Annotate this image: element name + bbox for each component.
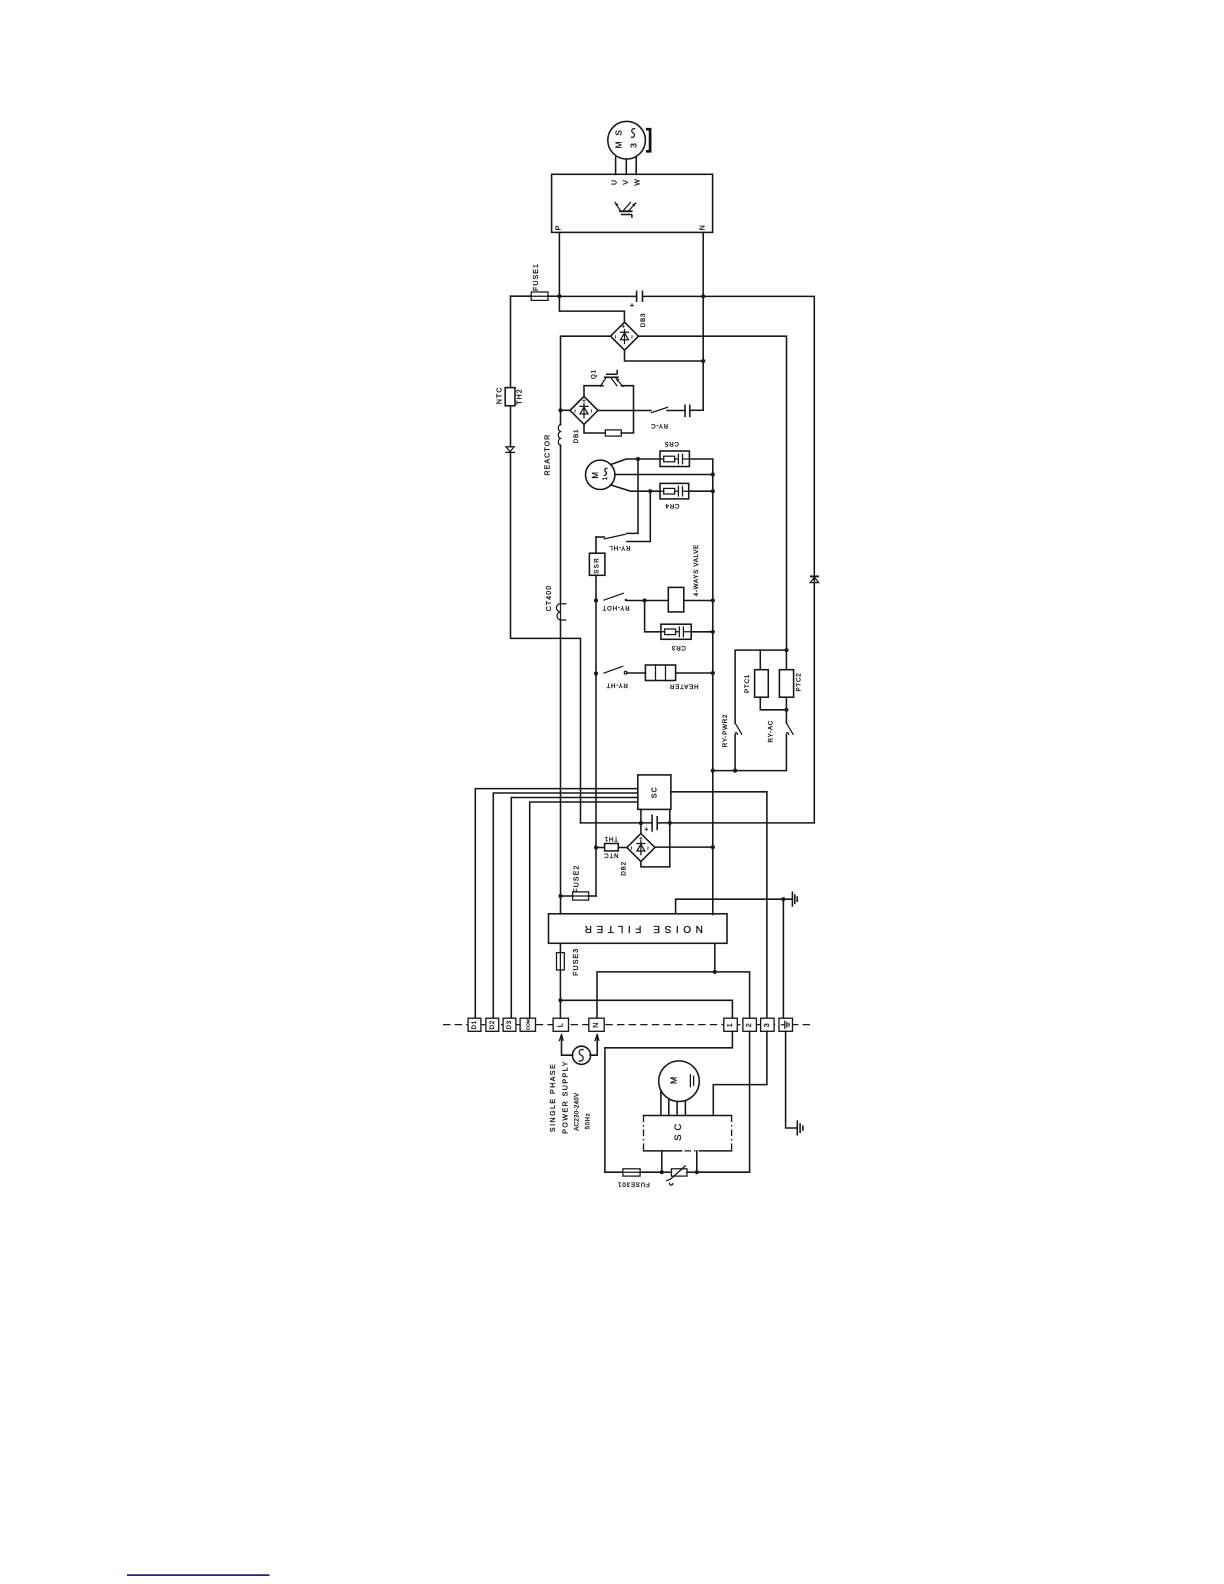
transistor Q1 glyph bbox=[604, 376, 619, 378]
svg-text:+: + bbox=[582, 399, 586, 405]
wire M1 middle lead bbox=[615, 474, 713, 476]
svg-text:C: C bbox=[673, 1124, 684, 1131]
svg-text:D2: D2 bbox=[489, 1020, 496, 1030]
switch RY-HT bbox=[604, 666, 623, 673]
svg-text:PTC1: PTC1 bbox=[744, 674, 751, 693]
node RY-HOT tap bbox=[594, 598, 598, 602]
svg-text:L: L bbox=[557, 1022, 564, 1027]
node bus 474 bbox=[711, 472, 715, 476]
wire source to L bbox=[562, 1037, 573, 1056]
boundary dashed line bbox=[443, 1024, 810, 1026]
inverter IGBT glyph bbox=[619, 210, 633, 212]
svg-text:1: 1 bbox=[727, 1022, 734, 1027]
noise filter box bbox=[549, 914, 728, 944]
wire CR3 right to bus bbox=[691, 631, 713, 633]
wire L to terminal1 bbox=[560, 1000, 732, 1018]
svg-text:M: M bbox=[614, 141, 624, 148]
node M1 bottom bbox=[648, 489, 652, 493]
switch RY-PWR2 bbox=[735, 723, 742, 734]
node NF ground branch bbox=[781, 897, 785, 901]
motor M compressor bbox=[659, 1061, 700, 1102]
svg-text:RY-C: RY-C bbox=[650, 422, 668, 429]
svg-text:TH1: TH1 bbox=[604, 835, 618, 842]
svg-text:V: V bbox=[623, 179, 630, 185]
svg-text:Q1: Q1 bbox=[590, 369, 597, 379]
fuse FUSE1 bbox=[511, 295, 532, 297]
wire SC D1 bbox=[475, 789, 638, 1019]
node 714/972 bbox=[713, 970, 717, 974]
svg-text:M: M bbox=[591, 472, 600, 479]
thermistor NTC TH1 bbox=[596, 847, 605, 849]
node bus 600 bbox=[711, 598, 715, 602]
svg-text:CR5: CR5 bbox=[664, 440, 679, 447]
wire reactor down main bus bbox=[560, 445, 562, 914]
heater bbox=[645, 665, 675, 681]
svg-text:D1: D1 bbox=[471, 1020, 478, 1030]
wire NF ground stub bbox=[676, 899, 792, 914]
wire SC D3 bbox=[511, 798, 638, 1019]
svg-text:HEATER: HEATER bbox=[669, 683, 698, 690]
reactor coil bbox=[558, 425, 560, 446]
node RY-HT tap bbox=[594, 671, 598, 675]
svg-text:S: S bbox=[614, 130, 624, 136]
svg-text:COM: COM bbox=[526, 1019, 531, 1030]
node RY-PWR2 bottom bbox=[733, 769, 737, 773]
node bus 847 bbox=[711, 845, 715, 849]
wire SSR down bbox=[595, 575, 597, 896]
svg-text:R: R bbox=[593, 558, 600, 563]
svg-text:FUSE3: FUSE3 bbox=[573, 948, 580, 976]
svg-text:AC230-240V: AC230-240V bbox=[575, 1092, 581, 1130]
svg-text:RY-HOT: RY-HOT bbox=[602, 604, 630, 611]
switch RY-AC bbox=[786, 723, 793, 734]
thermistor NTC TH2 bbox=[505, 388, 515, 406]
rectifier DB3 bbox=[611, 322, 639, 350]
svg-text:N: N bbox=[700, 224, 707, 230]
wire SC right leg bbox=[641, 809, 670, 867]
terminal D1 bbox=[468, 1018, 481, 1031]
node PTC top bbox=[784, 648, 788, 652]
node bus 491 bbox=[711, 489, 715, 493]
node fuse001 right bbox=[660, 1170, 664, 1174]
diode D bbox=[506, 447, 515, 453]
resistor PTC2 bbox=[785, 650, 787, 670]
wire terminal1 loop bbox=[605, 1031, 733, 1172]
capacitor DB2 bbox=[652, 815, 657, 831]
svg-text:C: C bbox=[652, 787, 659, 792]
wire cap to right bus bbox=[643, 296, 815, 823]
svg-text:2: 2 bbox=[746, 1022, 753, 1027]
relay SSR bbox=[595, 537, 597, 553]
wire SC D2 bbox=[493, 793, 638, 1018]
wire SC right to terminal3 bbox=[671, 792, 767, 1018]
wire CR4 right to bus bbox=[689, 490, 713, 492]
coil 4-ways valve bbox=[668, 587, 684, 612]
svg-text:S: S bbox=[593, 564, 600, 568]
svg-text:~: ~ bbox=[589, 409, 595, 413]
snubber CR3 bbox=[645, 601, 661, 632]
svg-text:~: ~ bbox=[613, 335, 619, 339]
node DB1 tap bbox=[558, 408, 562, 412]
svg-text:N: N bbox=[593, 1022, 600, 1028]
terminal L bbox=[553, 1018, 568, 1031]
wire ground branch down to terminal bbox=[782, 899, 784, 1018]
wire NF right leg bbox=[714, 943, 716, 972]
wire DB3 right to right bus bbox=[639, 336, 787, 650]
fuse FUSE2 bbox=[558, 894, 562, 898]
node N bus 296 bbox=[701, 294, 705, 298]
node bus 673 bbox=[711, 671, 715, 675]
wire jog to cap bbox=[581, 822, 653, 824]
svg-text:S: S bbox=[673, 1134, 684, 1140]
terminal 1 bbox=[724, 1018, 738, 1031]
wire NTC to diode bbox=[510, 406, 512, 447]
wire M1 top lead bbox=[611, 459, 660, 465]
motor leads to SC bbox=[661, 1091, 686, 1116]
svg-text:RY-PWR2: RY-PWR2 bbox=[722, 714, 729, 747]
wire SC legs down bbox=[662, 1151, 697, 1172]
svg-text:POWER SUPPLY: POWER SUPPLY bbox=[563, 1060, 570, 1134]
motor leads U V W bbox=[616, 157, 637, 174]
node PTC1 bottom bbox=[784, 708, 788, 712]
svg-text:+: + bbox=[621, 324, 625, 330]
svg-text:NOISE FILTER: NOISE FILTER bbox=[580, 923, 703, 934]
svg-text:CR4: CR4 bbox=[665, 502, 680, 509]
node varistor right bbox=[695, 1170, 699, 1174]
ground bottom bbox=[797, 1121, 803, 1135]
thermal protector bracket bbox=[646, 129, 650, 151]
svg-text:FUSE1: FUSE1 bbox=[533, 263, 540, 291]
ground NF bbox=[792, 892, 797, 906]
wire CR5 right to bus bbox=[689, 459, 712, 915]
svg-text:PTC2: PTC2 bbox=[796, 672, 803, 691]
inverter box bbox=[552, 174, 713, 232]
diode right bus bbox=[810, 575, 819, 577]
source AC circle bbox=[572, 1046, 590, 1064]
svg-text:U: U bbox=[612, 179, 619, 185]
node bus 770 bbox=[711, 769, 715, 773]
svg-text:TH2: TH2 bbox=[517, 388, 524, 405]
svg-text:DB3: DB3 bbox=[640, 313, 647, 327]
fuse FUSE3 bbox=[559, 943, 561, 952]
wire source to N bbox=[590, 1037, 597, 1056]
node M1 top bbox=[636, 457, 640, 461]
svg-text:S: S bbox=[593, 570, 600, 574]
node valve-CR3 tap bbox=[643, 598, 647, 602]
switch RY-HL bbox=[627, 459, 638, 533]
wire M1 bottom lead bbox=[611, 485, 660, 491]
wire DB1 left stub bbox=[561, 409, 571, 411]
node cap left bbox=[639, 821, 643, 825]
svg-text:FUSE2: FUSE2 bbox=[573, 865, 580, 893]
fuse FUSE001 bbox=[605, 1171, 623, 1173]
wire N riser bbox=[702, 232, 704, 410]
svg-text:NTC: NTC bbox=[497, 386, 504, 404]
switch RY-HOT bbox=[604, 593, 623, 600]
node L branch bbox=[558, 998, 562, 1002]
resistor PTC1 bbox=[759, 650, 761, 670]
svg-text:REACTOR: REACTOR bbox=[544, 434, 551, 476]
rectifier DB1 bbox=[570, 396, 598, 424]
terminal D3 bbox=[503, 1018, 516, 1031]
controller SC indoor bbox=[638, 775, 671, 810]
svg-text:RY-AC: RY-AC bbox=[768, 720, 775, 743]
wire N riser rail bbox=[597, 972, 750, 1018]
terminal N bbox=[589, 1018, 604, 1031]
wire DB3 left to reactor line bbox=[561, 336, 611, 425]
svg-text:50Hz: 50Hz bbox=[586, 1113, 592, 1130]
wire SC left leg bbox=[640, 809, 642, 833]
capacitor DC bus bbox=[637, 291, 643, 301]
terminal COM bbox=[520, 1018, 535, 1031]
controller SC outdoor bbox=[644, 1115, 732, 1117]
svg-text:~: ~ bbox=[573, 409, 579, 413]
svg-text:FUSE301: FUSE301 bbox=[617, 1180, 649, 1187]
svg-text:S: S bbox=[652, 793, 659, 798]
svg-text:~: ~ bbox=[646, 846, 652, 850]
wire DB2 right to bus bbox=[655, 846, 713, 848]
wire DB3 bottom to N bus bbox=[625, 350, 704, 361]
rectifier DB2 bbox=[627, 834, 655, 862]
svg-text:3: 3 bbox=[764, 1022, 771, 1027]
svg-text:W: W bbox=[635, 178, 642, 186]
varistor bbox=[662, 1171, 672, 1173]
terminal 3 bbox=[761, 1018, 775, 1031]
snubber CR5 bbox=[660, 451, 689, 467]
wire SC COM bbox=[530, 802, 638, 1018]
svg-text:RY-HL: RY-HL bbox=[609, 544, 631, 551]
motor MS3 circle bbox=[608, 121, 646, 159]
svg-text:~: ~ bbox=[630, 335, 636, 339]
footer line bbox=[127, 1574, 270, 1576]
node P-fuse junction bbox=[557, 294, 561, 298]
wire earth terminal down bbox=[786, 1031, 798, 1128]
svg-text:D3: D3 bbox=[506, 1020, 513, 1030]
svg-text:DB2: DB2 bbox=[620, 861, 627, 875]
switch RY-C bbox=[598, 410, 651, 412]
terminal 2 bbox=[743, 1018, 757, 1031]
svg-text:4-WAYS VALVE: 4-WAYS VALVE bbox=[693, 544, 700, 596]
svg-text:RY-HT: RY-HT bbox=[606, 682, 628, 689]
wire terminal3 to SC bbox=[713, 1031, 767, 1115]
svg-text:3: 3 bbox=[628, 143, 638, 148]
node bus 632 bbox=[711, 630, 715, 634]
motor M1 fan bbox=[586, 460, 615, 489]
svg-text:+: + bbox=[644, 827, 648, 834]
wire PTC top rail bbox=[735, 650, 786, 723]
svg-text:NTC: NTC bbox=[603, 852, 618, 859]
svg-text:~: ~ bbox=[630, 846, 636, 850]
svg-text:+: + bbox=[639, 836, 643, 842]
wire fuse to cap bbox=[559, 295, 636, 297]
svg-text:DB1: DB1 bbox=[573, 429, 580, 443]
node N bus 361 bbox=[701, 359, 705, 363]
node cap right bbox=[668, 821, 672, 825]
transformer CT400 bbox=[556, 604, 565, 620]
wire NTC branch bbox=[510, 296, 512, 387]
snubber CR4 bbox=[660, 483, 689, 499]
terminal D2 bbox=[486, 1018, 499, 1031]
wire to terminal2 bbox=[697, 1031, 750, 1172]
svg-text:CR3: CR3 bbox=[671, 644, 686, 651]
resistor Q1 loop bbox=[605, 430, 621, 436]
wire P riser bbox=[559, 232, 624, 322]
svg-text:+: + bbox=[630, 301, 635, 310]
svg-text:M: M bbox=[669, 1077, 679, 1084]
svg-text:CT400: CT400 bbox=[546, 585, 553, 612]
node TH1 tap bbox=[594, 845, 598, 849]
svg-text:SINGLE PHASE: SINGLE PHASE bbox=[550, 1063, 557, 1132]
svg-text:P: P bbox=[556, 225, 563, 231]
transistor Q1 loop bbox=[584, 386, 634, 433]
terminal earth bbox=[779, 1018, 793, 1031]
wire diode down jog bbox=[511, 452, 581, 823]
